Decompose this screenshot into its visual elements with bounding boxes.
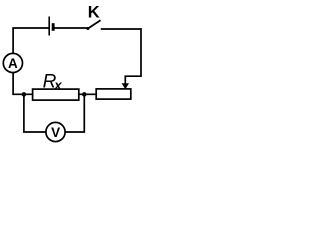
svg-text:A: A (8, 56, 18, 71)
wire left junction down to voltmeter (24, 95, 46, 132)
svg-text:V: V (51, 125, 60, 140)
node junction dot left (voltmeter tap) (22, 92, 27, 97)
wire Rx to rheostat (79, 93, 96, 95)
wire switch to top-right corner and down right side (102, 29, 141, 84)
wire top-left from ammeter up and right to battery (13, 28, 48, 53)
node junction dot right (voltmeter tap) (82, 92, 87, 97)
wire battery to switch (55, 27, 87, 29)
wire left side: ammeter down to middle rail (13, 73, 32, 95)
switch K pivot dot (86, 27, 89, 30)
ammeter A1 circle (3, 53, 22, 72)
rheostat R2 box (96, 89, 131, 99)
voltmeter V1 circle (46, 122, 65, 141)
battery B1 long plate (48, 17, 50, 34)
svg-text:K: K (88, 4, 100, 22)
battery B1 short thick plate (52, 23, 55, 31)
resistor Rx box (33, 89, 79, 100)
switch K lever (88, 21, 100, 29)
rheostat slider arrowhead (122, 83, 129, 89)
wire voltmeter to right junction up (66, 95, 84, 132)
